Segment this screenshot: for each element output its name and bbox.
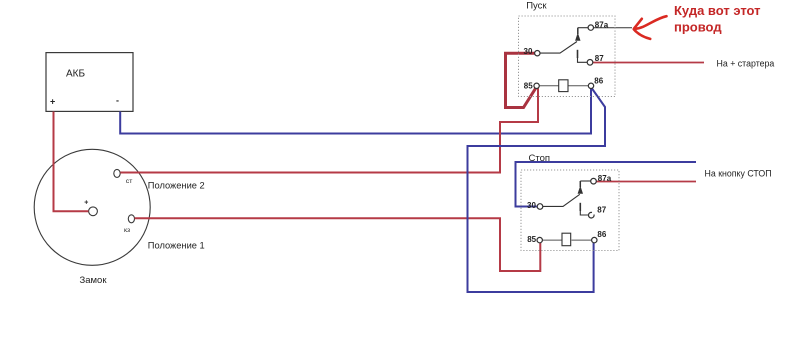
relay Пуск armature from pin 30: [540, 42, 577, 54]
svg-text:Куда вот этот: Куда вот этот: [674, 3, 761, 18]
red annotation arrow: [634, 16, 667, 39]
relay Стоп coil line 85-86: [542, 239, 591, 241]
wire red lock ст to relay Пуск pin 85: [120, 88, 538, 172]
svg-text:Замок: Замок: [80, 275, 108, 286]
wire black Пуск pin 87a mystery wire: [594, 27, 633, 29]
svg-text:На + стартера: На + стартера: [717, 58, 775, 68]
relay Стоп armature arrowhead: [578, 186, 583, 194]
relay Пуск coil line 85-86: [539, 85, 588, 87]
relay Стоп armature from pin 30: [543, 194, 580, 206]
svg-text:30: 30: [524, 47, 533, 56]
lock terminal ст: [114, 169, 120, 177]
relay Стоп pin 87: [588, 212, 594, 218]
svg-text:86: 86: [597, 230, 606, 239]
svg-text:+: +: [84, 199, 88, 206]
relay Стоп dashed box: [521, 170, 619, 251]
svg-text:87a: 87a: [598, 174, 612, 183]
svg-text:30: 30: [527, 201, 536, 210]
relay Пуск pin 86: [588, 83, 593, 88]
relay Пуск pin 87a: [588, 25, 593, 30]
svg-text:Положение 1: Положение 1: [148, 241, 205, 251]
svg-text:87a: 87a: [595, 21, 609, 30]
relay Стоп pin 30: [537, 204, 543, 210]
wire red Пуск pin 87 На + стартера: [593, 62, 704, 64]
relay Пуск contact stub to 87: [577, 50, 579, 58]
lock terminal кз: [128, 215, 134, 223]
relay Стоп pin 85: [537, 237, 542, 242]
relay Стоп contact stub to 87: [579, 203, 581, 211]
svg-text:85: 85: [527, 235, 536, 244]
svg-text:86: 86: [594, 77, 603, 86]
relay Стоп pin 87a: [591, 178, 597, 184]
svg-text:Пуск: Пуск: [526, 1, 547, 12]
svg-text:кз: кз: [124, 227, 130, 234]
svg-text:85: 85: [524, 82, 533, 91]
svg-text:-: -: [116, 96, 119, 106]
svg-text:На кнопку СТОП: На кнопку СТОП: [705, 168, 772, 178]
battery АКБ box: [46, 53, 133, 112]
relay Пуск pin 30: [535, 51, 540, 56]
relay Пуск dashed box: [519, 16, 616, 97]
relay Стоп coil: [562, 233, 571, 246]
relay Пуск pin 87: [587, 60, 593, 66]
svg-text:Положение 2: Положение 2: [148, 180, 205, 190]
relay Пуск coil: [559, 80, 568, 92]
wire red battery plus to lock: [54, 112, 89, 212]
wire blue Пуск pin 86 to Стоп pin 86: [468, 88, 606, 292]
wire red thick jumper Пуск pin 30 to pin 85: [506, 53, 537, 107]
relay Пуск contact line from 87a: [578, 27, 588, 29]
svg-text:Стоп: Стоп: [529, 153, 551, 164]
relay Стоп contact line from 87a: [580, 180, 591, 182]
relay Пуск pin 85: [534, 83, 539, 88]
ignition lock circle (Замок): [34, 149, 150, 265]
wire blue На кнопку СТОП to Стоп pin 30: [516, 162, 697, 207]
svg-text:провод: провод: [674, 20, 722, 35]
wire red lock кз to relay Стоп pin 85: [135, 218, 541, 271]
relay Пуск armature arrowhead: [575, 33, 580, 41]
svg-text:87: 87: [595, 54, 604, 63]
lock center + terminal: [89, 207, 98, 216]
svg-text:+: +: [50, 97, 55, 107]
svg-text:ст: ст: [126, 178, 133, 185]
wire red Стоп pin 87a На кнопку СТОП: [597, 181, 697, 183]
wire blue battery minus to relay Пуск pin 86: [120, 88, 591, 133]
svg-text:АКБ: АКБ: [66, 69, 85, 80]
relay Стоп pin 86: [592, 237, 597, 242]
svg-text:87: 87: [597, 206, 606, 215]
